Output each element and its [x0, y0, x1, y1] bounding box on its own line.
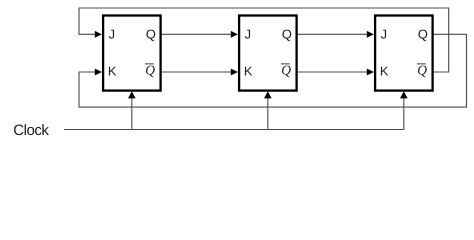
- flip-flop U1 box: [103, 16, 161, 91]
- clock arrow triangle FF1: [128, 91, 136, 98]
- svg-text:Q: Q: [417, 62, 427, 77]
- arrow into K1: [95, 69, 102, 76]
- wire: Q2 to J3: [298, 33, 368, 35]
- clock arrow triangle FF3: [400, 91, 408, 98]
- wire: bottom feedback (Q3 to K1): [79, 34, 467, 107]
- svg-text:J: J: [245, 27, 251, 42]
- svg-text:Q: Q: [145, 62, 155, 77]
- wire: clock branch to FF1: [131, 98, 133, 130]
- wire: Q1 to J2: [162, 33, 232, 35]
- wire: Q̄2 to K3: [298, 71, 368, 73]
- overline of Q̄ (U2): [281, 63, 290, 65]
- flip-flop U3 box: [375, 16, 433, 91]
- svg-text:Q: Q: [418, 27, 428, 42]
- wire: clock distribution line: [64, 129, 404, 131]
- wire: top feedback (Q̄3 to J1): [64, 8, 467, 130]
- wire: Q̄1 to K2: [162, 71, 232, 73]
- arrow into J3: [367, 31, 374, 38]
- arrow into K3: [367, 69, 374, 76]
- svg-text:Clock: Clock: [13, 122, 49, 139]
- clock arrow triangle FF2: [264, 91, 272, 98]
- svg-text:K: K: [380, 63, 389, 78]
- svg-text:Q: Q: [281, 62, 291, 77]
- overline of Q̄ (U3): [417, 63, 426, 65]
- svg-text:Q: Q: [282, 27, 292, 42]
- svg-text:Q: Q: [146, 27, 156, 42]
- arrow into J2: [231, 31, 238, 38]
- svg-text:J: J: [109, 27, 115, 42]
- wire: clock branch to FF3: [403, 98, 405, 130]
- svg-text:K: K: [108, 63, 117, 78]
- flip-flop U2 box: [239, 16, 297, 91]
- overline of Q̄ (U1): [145, 63, 154, 65]
- arrow into K2: [231, 69, 238, 76]
- svg-text:J: J: [381, 27, 387, 42]
- svg-text:K: K: [244, 63, 253, 78]
- arrow into J1: [95, 31, 102, 38]
- wire: clock branch to FF2: [267, 98, 269, 130]
